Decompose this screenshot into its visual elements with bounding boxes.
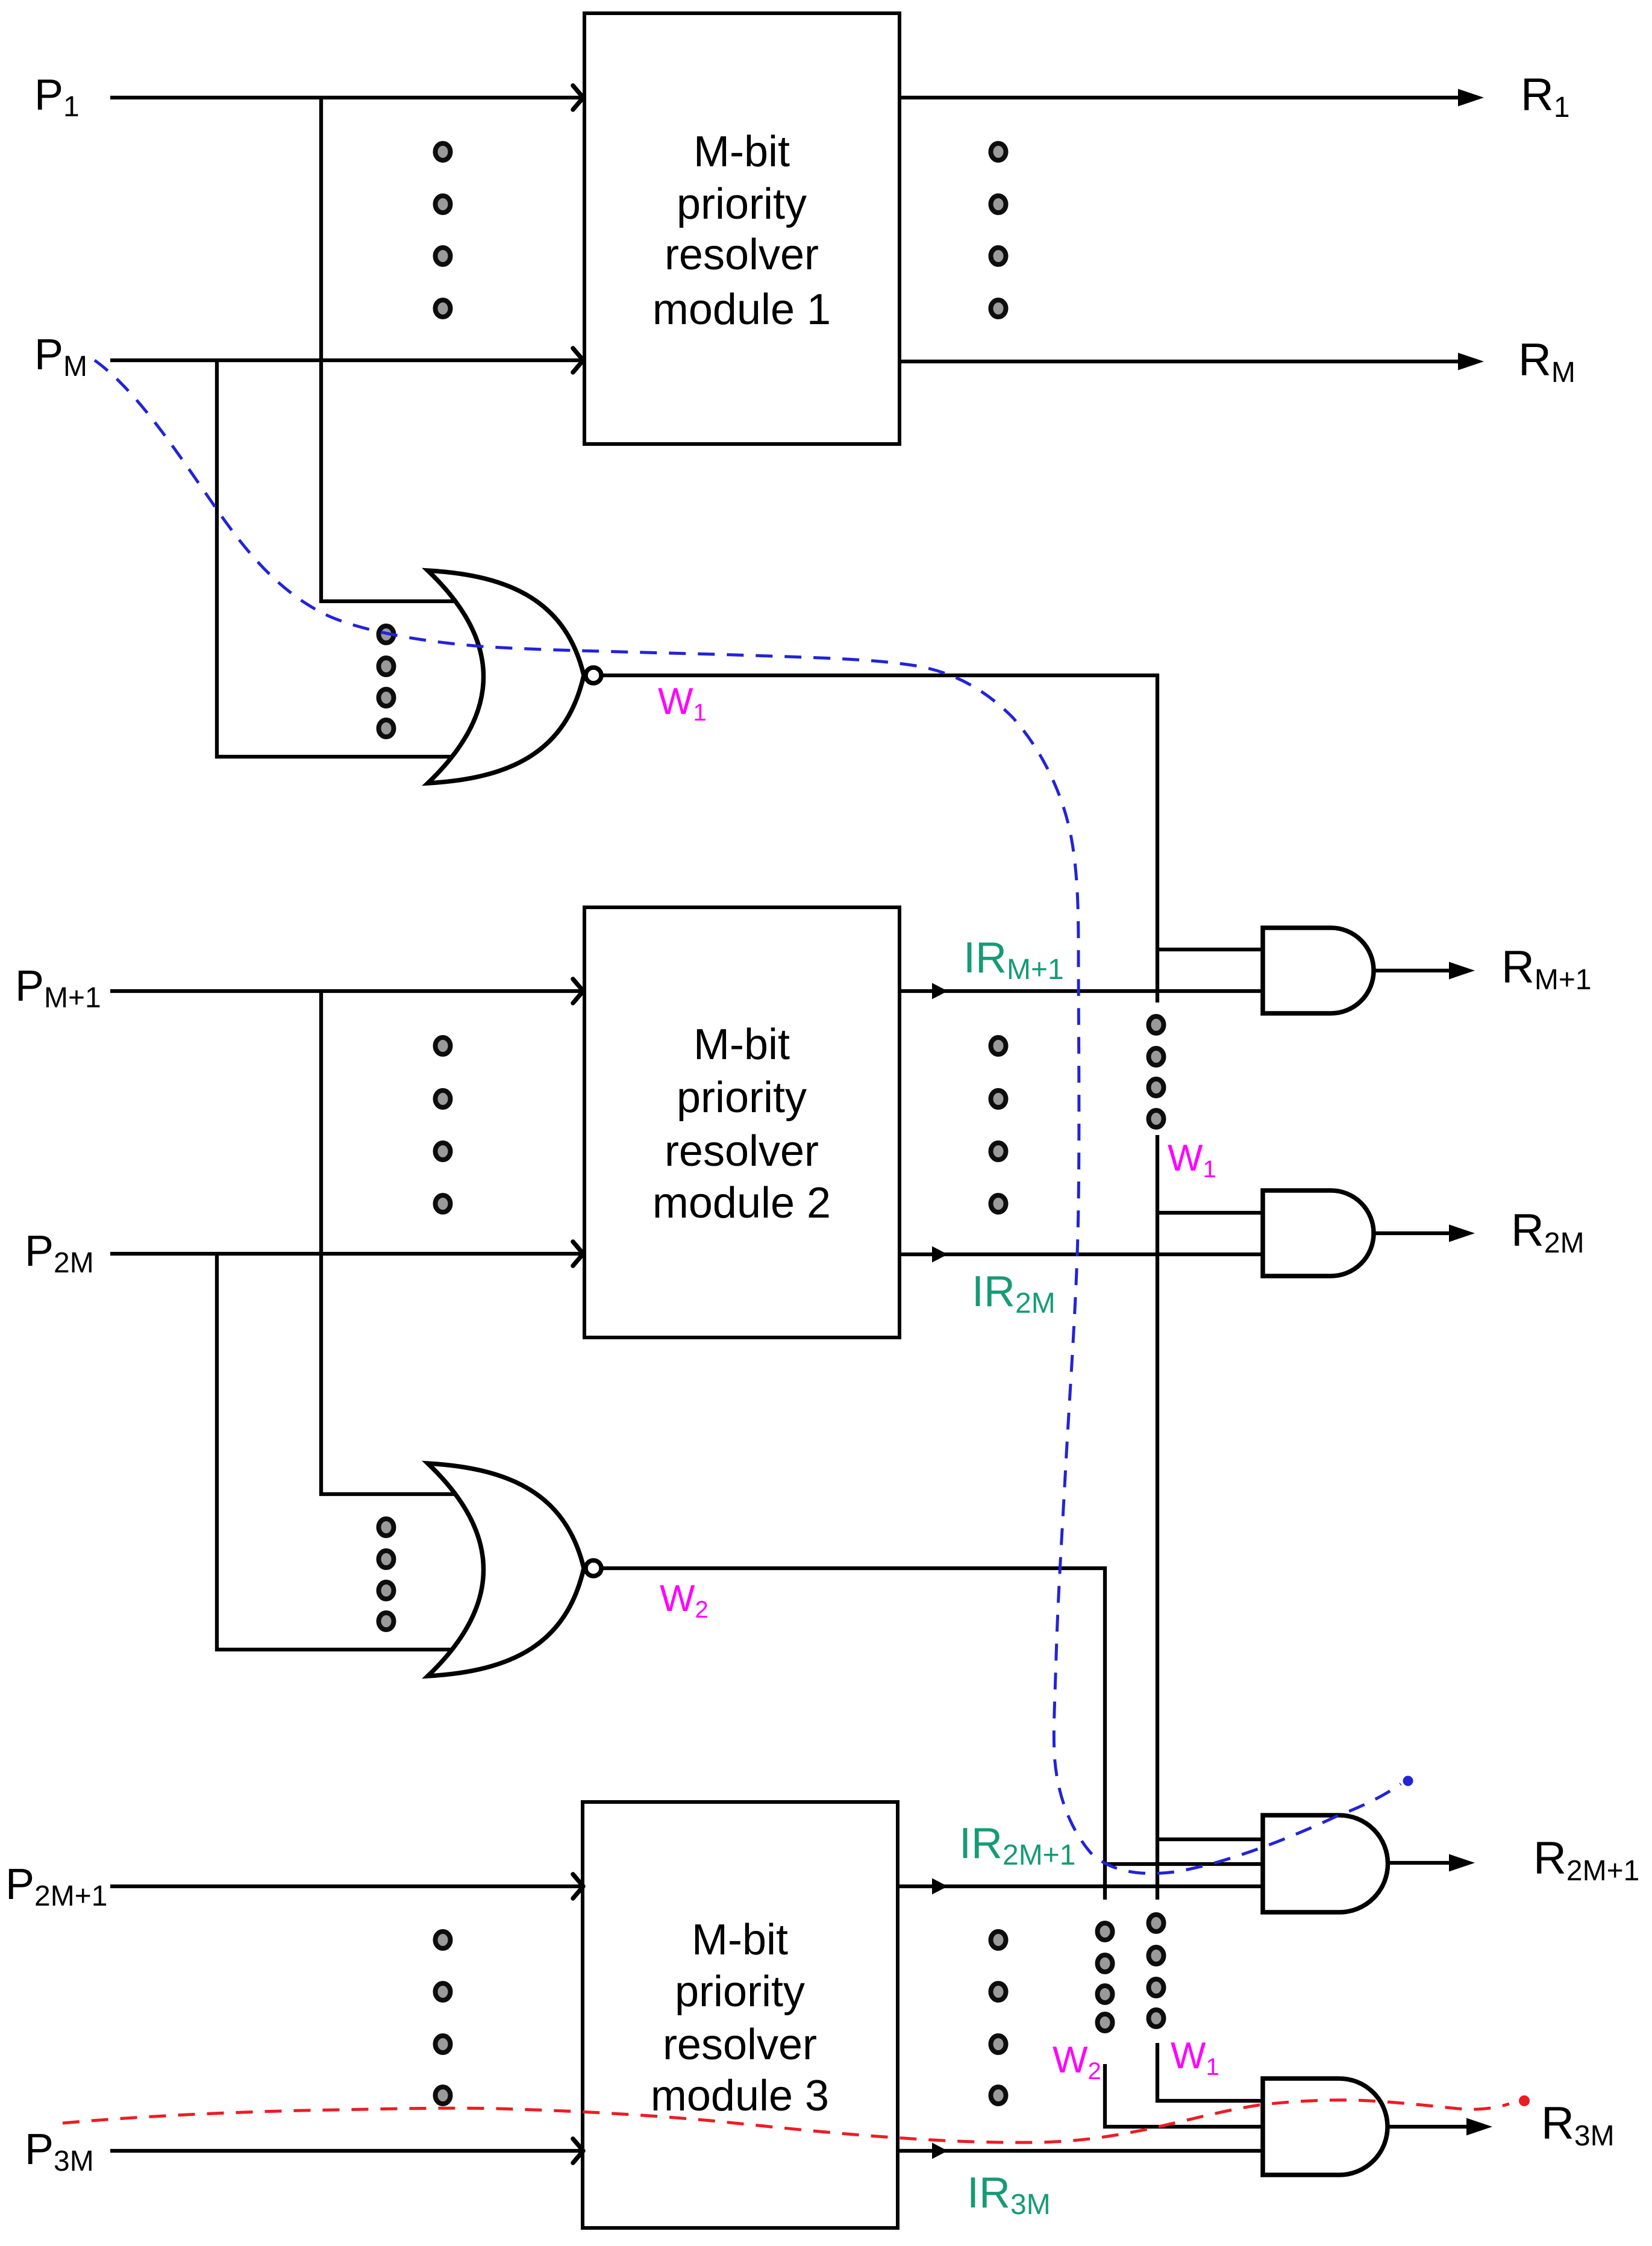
- wire W1 stub to AND gate A3 top input: [1157, 1838, 1263, 1841]
- svg-text:priority: priority: [677, 1074, 807, 1122]
- wire R2M+1 output: [1388, 1854, 1475, 1872]
- AND gate A2: [1263, 1190, 1374, 1276]
- module U1: M-bit priority resolver module 1: [584, 13, 900, 444]
- svg-text:resolver: resolver: [665, 231, 819, 279]
- dots column right of U1: [991, 143, 1006, 317]
- red dashed trace from P3M to R3M: [63, 2100, 1509, 2142]
- svg-text:module 2: module 2: [652, 1179, 831, 1227]
- svg-text:priority: priority: [677, 180, 807, 228]
- dots on W1 net below A1: [1149, 1016, 1164, 1127]
- wire RM output: [900, 353, 1484, 371]
- dots column right of U3: [991, 1932, 1006, 2104]
- wire RM+1 output: [1374, 962, 1475, 980]
- wire R2M output: [1374, 1225, 1475, 1242]
- dots on G2 inputs: [379, 1519, 394, 1630]
- svg-text:M-bit: M-bit: [693, 128, 790, 176]
- wire P2M+1 input: [110, 1874, 583, 1898]
- AND gate A3: [1263, 1815, 1388, 1912]
- wire IR2M+1 from U3 to AND gate A3 bottom input: [898, 1878, 1263, 1895]
- dots column left of U3: [436, 1932, 451, 2104]
- dots column right of U2: [991, 1037, 1006, 1212]
- dots on W2 net above A4: [1098, 1923, 1113, 2031]
- wire PM input: [110, 348, 583, 372]
- wire PM+1 branch to NOR gate G2 top input: [321, 991, 482, 1494]
- wire W2 stub to AND gate A3 middle input: [1105, 1862, 1263, 1866]
- wire P2M branch to NOR gate G2 bottom input: [217, 1254, 482, 1650]
- NOR gate G1 body: [428, 571, 584, 783]
- wire IR2M from U2 to AND gate A2 bottom input: [900, 1247, 1263, 1263]
- svg-text:priority: priority: [675, 1968, 805, 2016]
- wire W1 stub to AND gate A1 top input: [1157, 948, 1263, 951]
- NOR gate G2 bubble: [586, 1560, 601, 1576]
- svg-text:module 1: module 1: [652, 286, 831, 334]
- wire P1 branch to NOR gate G1 top input: [321, 98, 482, 601]
- svg-text:M-bit: M-bit: [692, 1916, 788, 1964]
- module U3: M-bit priority resolver module 3: [583, 1802, 898, 2228]
- blue dashed trace from PM to AND gate A3: [95, 360, 1401, 1874]
- wire W1 stub to AND gate A2 top input: [1157, 1211, 1263, 1215]
- svg-text:module 3: module 3: [651, 2072, 829, 2120]
- wire W2 resumed to AND gate A4 middle input: [1105, 2064, 1263, 2127]
- dots on W1 net above A4: [1149, 1915, 1164, 2027]
- wire P1 input: [110, 86, 583, 110]
- wire IRM+1 from U2 to AND gate A1 bottom input: [900, 983, 1263, 999]
- wire PM branch to NOR gate G1 bottom input: [217, 360, 482, 757]
- svg-text:resolver: resolver: [665, 1127, 819, 1175]
- wire W2 from G2 output down to AND gate A3 middle input: [602, 1568, 1105, 1900]
- wire W1 from G1 output to AND gate A1 top input: [602, 675, 1157, 1003]
- wire R3M output: [1388, 2118, 1492, 2136]
- svg-text:resolver: resolver: [663, 2021, 817, 2069]
- NOR gate G1 bubble: [586, 668, 601, 683]
- wire P3M input: [110, 2139, 583, 2163]
- AND gate A4: [1263, 2079, 1388, 2175]
- blue trace end dot: [1403, 1776, 1413, 1786]
- red trace end dot: [1519, 2095, 1530, 2106]
- dots column left of U1: [436, 143, 451, 317]
- wire PM+1 input: [110, 979, 583, 1003]
- AND gate A1: [1263, 928, 1374, 1013]
- NOR gate G2 body: [428, 1463, 584, 1676]
- wire W1 resumed to AND gate A4 top input: [1157, 2043, 1263, 2101]
- svg-text:M-bit: M-bit: [693, 1021, 790, 1069]
- wire R1 output: [900, 89, 1484, 107]
- wire IR3M from U3 to AND gate A4 bottom input: [898, 2143, 1263, 2159]
- dots on G1 inputs: [379, 626, 394, 737]
- dots column left of U2: [436, 1037, 451, 1212]
- wire P2M input: [110, 1242, 583, 1266]
- wire W1 vertical resumed: [1156, 1135, 1159, 1900]
- module U2: M-bit priority resolver module 2: [584, 907, 900, 1337]
